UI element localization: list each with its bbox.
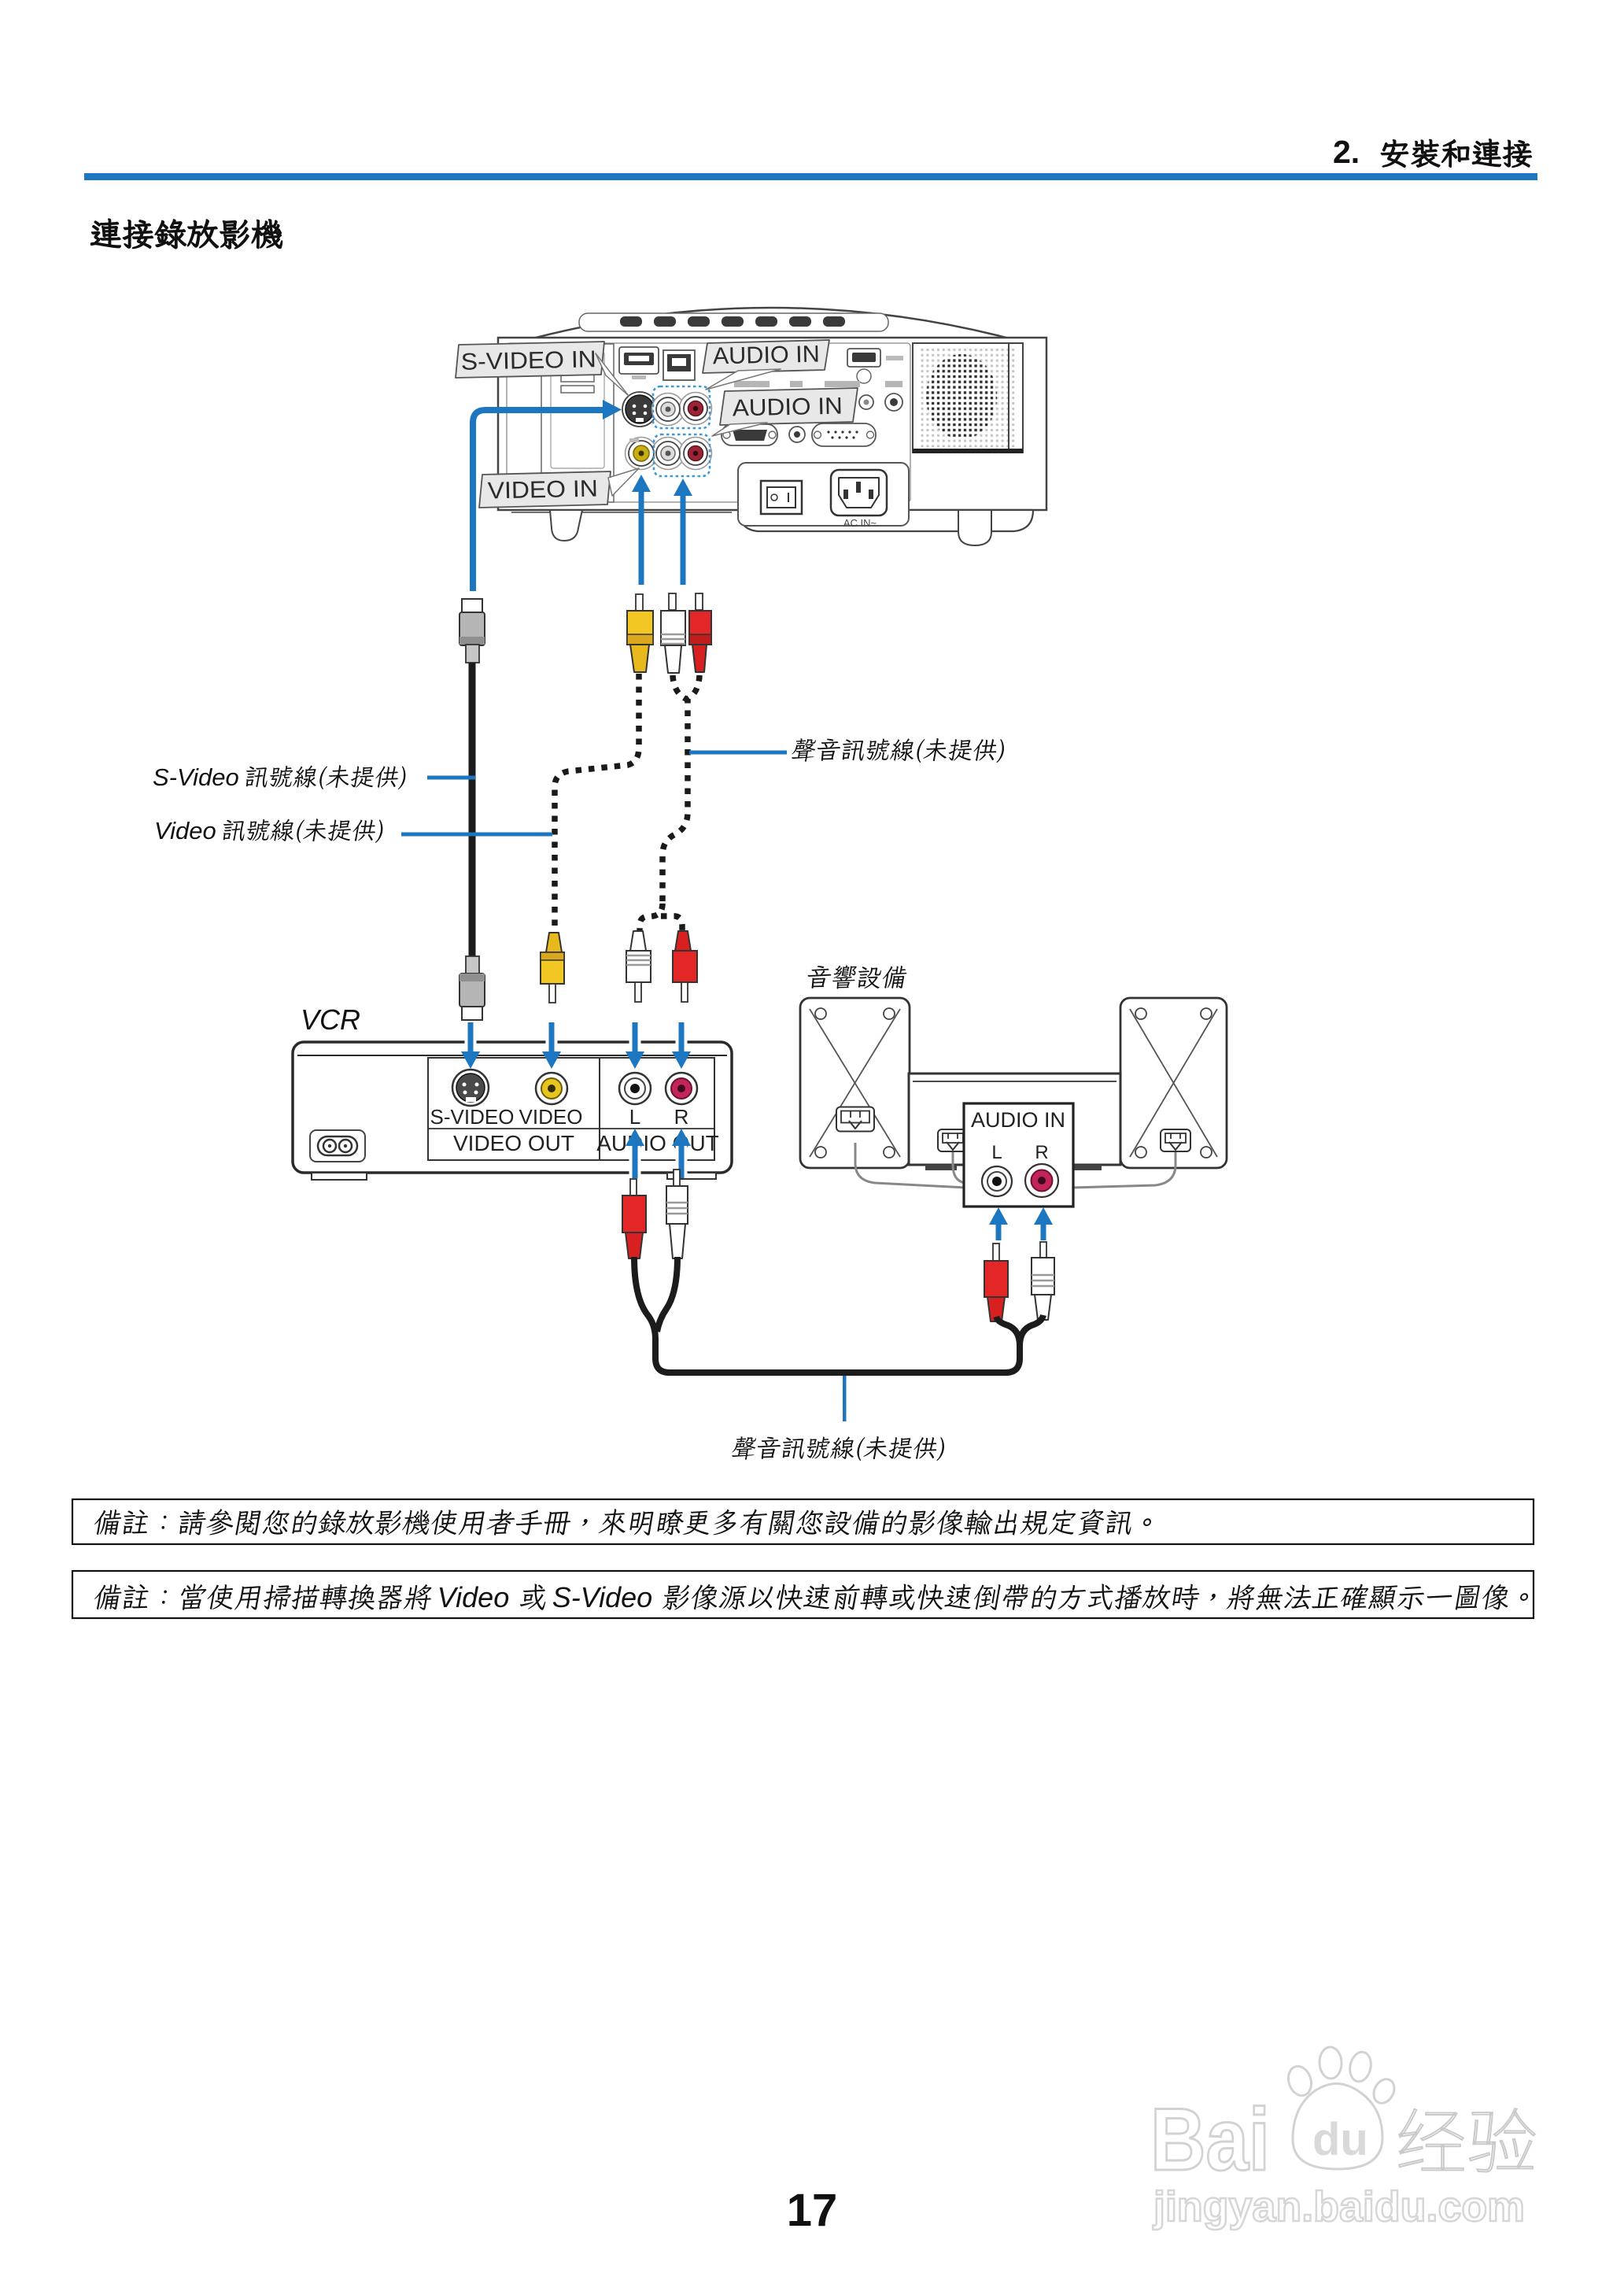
svg-text:S-VIDEO IN: S-VIDEO IN: [460, 346, 596, 375]
svg-text:AUDIO OUT: AUDIO OUT: [596, 1131, 719, 1155]
svg-text:L: L: [629, 1105, 640, 1129]
svg-text:AC IN~: AC IN~: [843, 517, 877, 529]
svg-text:VIDEO: VIDEO: [519, 1105, 583, 1129]
svg-text:du: du: [1312, 2114, 1368, 2165]
svg-text:AUDIO IN: AUDIO IN: [712, 342, 820, 370]
svg-text:jingyan.baidu.com: jingyan.baidu.com: [1153, 2183, 1525, 2230]
svg-text:S-VIDEO: S-VIDEO: [430, 1105, 515, 1129]
svg-text:VCR: VCR: [301, 1003, 360, 1036]
svg-text:Video: Video: [154, 817, 216, 844]
svg-text:VIDEO IN: VIDEO IN: [487, 476, 598, 504]
svg-text:AUDIO IN: AUDIO IN: [971, 1108, 1065, 1132]
svg-text:R: R: [674, 1105, 689, 1129]
svg-text:17: 17: [787, 2185, 838, 2236]
svg-text:S-Video: S-Video: [153, 763, 239, 791]
svg-text:AUDIO IN: AUDIO IN: [732, 394, 843, 422]
svg-text:S-Video: S-Video: [552, 1581, 652, 1613]
svg-text:R: R: [1035, 1142, 1048, 1163]
svg-text:VIDEO OUT: VIDEO OUT: [453, 1131, 574, 1155]
svg-text:L: L: [991, 1142, 1002, 1163]
svg-text:Bai: Bai: [1150, 2090, 1270, 2189]
svg-text:2.: 2.: [1333, 134, 1360, 170]
svg-text:Video: Video: [437, 1581, 509, 1613]
